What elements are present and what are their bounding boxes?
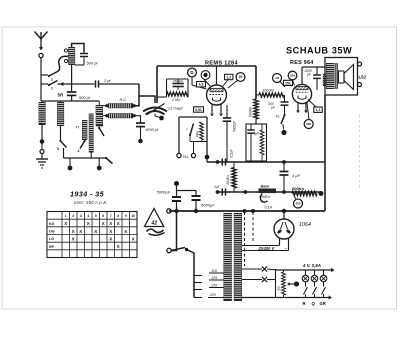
svg-text:X: X [132, 237, 135, 242]
capacitor 5000uF [174, 181, 179, 186]
terminal TAL [177, 153, 181, 157]
svg-text:1064: 1064 [299, 222, 311, 228]
box 0.51 [194, 107, 204, 112]
wire choke1 to grid line [134, 96, 139, 106]
heater lines with crossings [242, 268, 262, 270]
box 151 [284, 80, 293, 85]
svg-text:1µF: 1µF [254, 132, 261, 136]
svg-text:240: 240 [290, 74, 295, 78]
svg-text:X: X [117, 244, 120, 249]
svg-text:2: 2 [51, 78, 53, 82]
svg-text:4000 pf: 4000 pf [146, 128, 159, 132]
terminal dot [69, 158, 71, 166]
svg-text:L52: L52 [359, 75, 367, 80]
svg-text:3: 3 [80, 214, 82, 218]
bottom bus [64, 157, 107, 159]
tube V2 RES964 [292, 84, 311, 103]
svg-text:42: 42 [150, 221, 157, 227]
pickup box [179, 116, 207, 118]
svg-text:25: 25 [239, 75, 243, 79]
svg-text:6Rn: 6Rn [196, 131, 200, 137]
capacitor 5000 [226, 105, 228, 118]
svg-text:5000µF: 5000µF [233, 120, 237, 132]
lamp GR [323, 270, 325, 275]
lamp R [305, 270, 307, 275]
warning triangle 42 [145, 209, 164, 227]
wire speaker column [324, 95, 326, 211]
choke 2 [105, 114, 108, 117]
svg-text:2X400 V: 2X400 V [258, 246, 276, 251]
wire [226, 133, 228, 162]
svg-text:9: 9 [125, 214, 127, 218]
ground [41, 154, 43, 160]
svg-text:450: 450 [295, 202, 300, 206]
capacitor 0.5uF series [221, 158, 223, 165]
svg-text:1934 - 35: 1934 - 35 [70, 190, 105, 199]
svg-text:X: X [124, 229, 127, 234]
cone [344, 65, 354, 90]
capacitor 4000pf [140, 116, 142, 123]
svg-text:5: 5 [95, 214, 97, 218]
svg-text:2500pF: 2500pF [172, 79, 183, 83]
coil F [96, 116, 103, 126]
output transformer winding [326, 63, 335, 89]
scan artifact line [359, 115, 361, 190]
rectifier tube 1064 [274, 219, 294, 239]
svg-text:X: X [72, 237, 75, 242]
svg-text:X: X [64, 221, 67, 226]
choke on column [323, 74, 327, 86]
antenna [40, 38, 42, 47]
capacitor 2pF [95, 80, 97, 87]
svg-text:X: X [117, 221, 120, 226]
circle D [188, 68, 197, 77]
svg-text:1: 1 [51, 87, 53, 91]
svg-text:6: 6 [102, 214, 104, 218]
capacitor 1uF [250, 124, 252, 130]
svg-text:X: X [109, 237, 112, 242]
circle 240 [288, 71, 297, 80]
capacitor 500pF tank [80, 53, 88, 55]
svg-text:X: X [87, 221, 90, 226]
svg-text:500 pf: 500 pf [79, 95, 91, 100]
svg-text:2: 2 [72, 214, 74, 218]
lamp bus bottom [242, 297, 329, 299]
bus top of coils [40, 84, 42, 101]
svg-text:1: 1 [65, 214, 67, 218]
dashed anode wires [244, 212, 246, 266]
svg-text:GR: GR [320, 301, 326, 306]
svg-text:X: X [109, 229, 112, 234]
RC network [166, 79, 168, 97]
wire top rail [156, 66, 158, 103]
squiggle symbol [147, 229, 164, 232]
variable capacitor 21mapf [143, 108, 167, 112]
capacitor 4uF [283, 162, 285, 171]
rectifier filament wires [279, 239, 281, 246]
svg-text:RP: RP [49, 245, 55, 249]
coil C [82, 120, 87, 140]
tube V1 REMS1284 [207, 85, 227, 105]
switch 1 [41, 83, 48, 85]
svg-text:0,5µF: 0,5µF [230, 149, 234, 158]
tap circle [64, 49, 67, 52]
hook 0,1A [261, 194, 268, 203]
svg-text:4 µF: 4 µF [292, 173, 301, 178]
resistor 2M [167, 92, 189, 96]
svg-text:SCHAUB 35W: SCHAUB 35W [286, 46, 352, 56]
svg-text:4: 4 [87, 214, 89, 218]
svg-text:7: 7 [186, 128, 188, 132]
svg-text:R.C.: R.C. [120, 98, 128, 102]
svg-text:7: 7 [110, 214, 112, 218]
svg-text:Bann: Bann [261, 184, 270, 188]
svg-text:10: 10 [131, 214, 135, 218]
coil D [89, 114, 94, 153]
circle 450 [294, 199, 303, 208]
svg-text:D: D [190, 70, 193, 75]
svg-text:151: 151 [285, 81, 291, 85]
svg-text:5R: 5R [58, 93, 64, 98]
svg-text:X: X [72, 229, 75, 234]
wire coil down [71, 65, 73, 91]
tube V1 grid cap wire [216, 66, 218, 85]
resistor 600K vertical [254, 99, 258, 119]
resistor dropper [282, 272, 286, 295]
resistor 400K inside [260, 130, 264, 155]
svg-text:RES 964: RES 964 [290, 60, 314, 66]
switch 4 [84, 140, 86, 141]
box 1.2 output [314, 107, 322, 112]
svg-text:X: X [79, 229, 82, 234]
antenna terminal [39, 53, 43, 57]
svg-text:125: 125 [211, 276, 218, 280]
svg-text:8: 8 [117, 214, 119, 218]
svg-text:220: 220 [209, 293, 217, 297]
terminal dot [98, 158, 100, 166]
svg-text:400Kn: 400Kn [226, 175, 230, 185]
svg-text:X: X [102, 221, 105, 226]
circle 290 [304, 120, 313, 129]
svg-text:2 pf: 2 pf [103, 78, 111, 83]
svg-text:3: 3 [57, 147, 59, 151]
pot wiper arrow [294, 281, 299, 286]
svg-text:1µF: 1µF [214, 185, 221, 189]
wire AF rail [207, 161, 325, 163]
wire choke2 [134, 115, 141, 117]
svg-text:KG: KG [49, 222, 55, 226]
svg-text:OG: OG [49, 230, 55, 234]
wire to 2pF [58, 83, 95, 85]
circle 25 [236, 73, 245, 82]
svg-text:400: 400 [277, 286, 281, 291]
terminal [357, 63, 360, 65]
wire to 290 [307, 103, 309, 120]
svg-text:800Kn: 800Kn [292, 186, 305, 191]
box 1uF 400K [246, 124, 267, 161]
svg-text:600Kn: 600Kn [249, 107, 253, 117]
svg-text:2 Mn: 2 Mn [171, 98, 180, 102]
svg-text:TAL.: TAL. [183, 155, 190, 159]
wire coil top [72, 44, 84, 53]
svg-text:290: 290 [306, 122, 311, 126]
svg-text:1,2: 1,2 [316, 108, 321, 112]
svg-text:-20: -20 [275, 76, 280, 80]
tube V2 legs [297, 103, 299, 110]
svg-text:0,51: 0,51 [195, 108, 202, 112]
junction dot [205, 155, 210, 160]
tube V1 legs [211, 104, 213, 113]
wire / junction below coil A [41, 125, 43, 140]
svg-text:4: 4 [78, 149, 80, 153]
box 1.2 [225, 74, 233, 79]
svg-text:150: 150 [211, 283, 218, 287]
circle AB [201, 71, 210, 80]
switch 7 [190, 124, 194, 136]
svg-text:21 mapf: 21 mapf [167, 106, 183, 111]
svg-text:X: X [109, 221, 112, 226]
tap circle [64, 59, 67, 62]
coil B [57, 102, 64, 126]
svg-text:500 pf: 500 pf [87, 61, 99, 66]
switch 5 [106, 158, 113, 164]
svg-text:110: 110 [211, 269, 218, 273]
terminal [40, 150, 44, 154]
terminal [357, 84, 360, 86]
capacitor 1uF series [221, 188, 223, 195]
switch 3 [60, 126, 62, 141]
wire anode to speaker [302, 66, 325, 68]
switch 2 [41, 74, 48, 76]
lamp bus top [276, 269, 332, 271]
resistor 6R [200, 122, 204, 140]
capacitor 6000uF [177, 190, 197, 192]
lamp Q [314, 270, 316, 275]
coil L1 input [68, 47, 75, 65]
svg-text:6000µF: 6000µF [201, 203, 215, 208]
circle -20 [273, 74, 282, 83]
wire to tuning cap [99, 83, 140, 85]
wire bias rail [218, 191, 322, 193]
svg-text:R: R [303, 301, 306, 306]
wire S-coupling coil [58, 56, 69, 72]
speaker box [325, 58, 358, 96]
resistor 400K between rails [232, 168, 236, 189]
capacitor 2500pF [173, 83, 184, 85]
svg-text:LG: LG [49, 237, 54, 241]
svg-text:1,2: 1,2 [226, 76, 231, 80]
mains transformer [224, 213, 232, 301]
svg-text:Ta: Ta [276, 115, 280, 119]
switch 6 [98, 126, 100, 128]
svg-text:X: X [94, 229, 97, 234]
svg-text:0,1A: 0,1A [265, 206, 273, 210]
voltage selector stubs [194, 275, 202, 277]
capacitor 300pF [284, 95, 286, 102]
driver [339, 71, 345, 83]
box 4.3 [197, 82, 206, 87]
wire antenna down [40, 58, 42, 84]
coil E [96, 105, 103, 115]
svg-text:4.3: 4.3 [199, 83, 204, 87]
coil A [39, 102, 46, 125]
capacitor 500pF series [67, 91, 77, 93]
mains switch [171, 211, 176, 251]
main B+ rail [169, 210, 325, 212]
svg-text:4 V. 0,8A: 4 V. 0,8A [302, 263, 321, 268]
svg-text:Instr. 500 n p.K.: Instr. 500 n p.K. [74, 200, 108, 205]
svg-text:5000µF: 5000µF [157, 190, 171, 195]
choke 1 [105, 104, 108, 107]
wire anode rail down [255, 66, 257, 99]
